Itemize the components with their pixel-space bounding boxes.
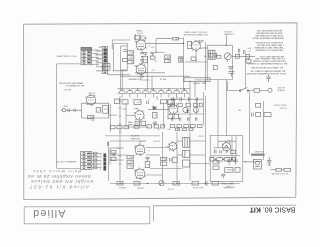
svg-text:470K: 470K bbox=[151, 45, 155, 47]
vertical feed wire bbox=[120, 46, 122, 90]
junction dots bias chain bbox=[119, 183, 206, 184]
vertical wire at 183.4 bbox=[182, 37, 184, 90]
long wire x218 bbox=[217, 80, 219, 136]
cap Cd bbox=[196, 97, 197, 101]
plate resistor box R8 bbox=[134, 100, 141, 105]
tone pot 1 bbox=[183, 107, 188, 112]
wire jack loop to bus bbox=[109, 114, 117, 116]
grid resistor R19 bbox=[127, 56, 133, 60]
PS junction dots bbox=[215, 159, 233, 160]
svg-text:ALL RESISTORS ARE 1/2 WATT 10%: ALL RESISTORS ARE 1/2 WATT 10% bbox=[250, 70, 285, 73]
wire V5 plate row bbox=[146, 43, 209, 52]
loop inner component b bbox=[123, 58, 128, 61]
screen resistor R21 bbox=[127, 51, 133, 55]
pilot and dial lamps label bbox=[56, 55, 77, 58]
coupling cluster label bbox=[154, 60, 157, 62]
speaker terminal block bbox=[81, 152, 92, 170]
left wires cluster bbox=[110, 147, 124, 149]
bias resistor Rb4 bbox=[192, 182, 198, 185]
svg-text:SPEAKER OUTPUTS: SPEAKER OUTPUTS bbox=[56, 160, 76, 163]
input connector strip (left-center) bbox=[102, 46, 107, 73]
left cluster box 2 bbox=[111, 157, 116, 160]
border frame of schematic sheet bbox=[24, 23, 297, 200]
potentiometer P1 bbox=[224, 53, 231, 60]
svg-text:.01: .01 bbox=[176, 102, 178, 104]
vertical wire x162.5 bbox=[162, 132, 164, 181]
label: output transformer bbox=[183, 31, 208, 35]
svg-text:AUX IN: AUX IN bbox=[96, 65, 103, 68]
svg-text:PIN 4-5: PIN 4-5 bbox=[160, 78, 166, 80]
phase inv tube V8 bbox=[169, 143, 177, 151]
resistor R36 bbox=[164, 59, 170, 62]
grid resistor R2 bbox=[87, 115, 93, 118]
junction component bbox=[235, 54, 239, 58]
cap C6 bbox=[153, 122, 157, 126]
svg-text:7591: 7591 bbox=[134, 168, 138, 170]
svg-text:V4B PHASE: V4B PHASE bbox=[130, 137, 140, 140]
svg-text:NOTE 2: NOTE 2 bbox=[63, 88, 71, 90]
small rect R31 bbox=[173, 37, 179, 40]
wire below strip bbox=[108, 62, 130, 75]
switch wire bbox=[249, 90, 254, 92]
tube stubs V6 bbox=[134, 144, 145, 157]
input jack J1 bbox=[61, 109, 74, 112]
tube V2b circle bbox=[169, 105, 178, 114]
AC box row2 bbox=[264, 113, 271, 117]
resistor R63 bbox=[127, 165, 133, 169]
heater bus top rail bbox=[118, 88, 190, 90]
value label sprinkle 7 bbox=[122, 107, 126, 109]
wire to fuse bbox=[260, 90, 268, 92]
svg-text:AC LINE: AC LINE bbox=[277, 86, 284, 89]
svg-text:ALL VOLTAGES DC: ALL VOLTAGES DC bbox=[65, 84, 84, 87]
svg-text:.05: .05 bbox=[160, 102, 162, 104]
tube stubs V1 bbox=[86, 94, 97, 107]
resistor R15 bbox=[174, 115, 179, 119]
svg-text:FOR 7591 OUTPUT TUBES: FOR 7591 OUTPUT TUBES bbox=[184, 31, 207, 33]
wires from power box top going up bbox=[222, 182, 232, 184]
svg-text:Allied: Allied bbox=[32, 207, 66, 219]
svg-text:.022: .022 bbox=[151, 68, 154, 70]
svg-text:GND: GND bbox=[98, 45, 103, 47]
tube V4 internals bbox=[138, 68, 144, 74]
PS bottom caps bbox=[221, 174, 225, 178]
vertical wire x190 lower bbox=[189, 132, 191, 181]
long wire x190 bbox=[189, 80, 191, 128]
cap Ca bbox=[172, 97, 173, 101]
small box under V5 bbox=[191, 57, 196, 60]
wire to R31 bbox=[156, 39, 183, 53]
PS wire 2 bbox=[235, 141, 237, 157]
svg-text:TUNER: TUNER bbox=[95, 69, 102, 71]
bias resistor R17 bbox=[127, 60, 133, 64]
tube V1 label bbox=[88, 92, 95, 94]
resistor R14 bbox=[168, 115, 173, 119]
svg-text:WITH SELECTOR IN PHONO: WITH SELECTOR IN PHONO bbox=[255, 41, 283, 43]
tube V5 circle bbox=[192, 41, 201, 50]
volume/loudness label bbox=[223, 30, 234, 34]
vertical bus left of center bbox=[119, 96, 121, 181]
voltage note (left) bbox=[59, 81, 84, 87]
PS resistor upper right bbox=[231, 150, 236, 153]
cap C16 bbox=[243, 50, 245, 54]
lower boxes row bbox=[170, 125, 202, 128]
tube stubs V4 bbox=[135, 63, 146, 76]
tube V5 internals bbox=[193, 45, 198, 49]
loop inner component a bbox=[123, 50, 127, 52]
cap C42 bbox=[170, 158, 172, 162]
junction dots col bbox=[141, 56, 142, 64]
bass/treble label bbox=[127, 121, 132, 127]
tube V4 label bbox=[135, 64, 139, 66]
bias resistor Rb1 bbox=[117, 182, 123, 186]
svg-text:.047: .047 bbox=[154, 60, 157, 62]
cap C40 bbox=[113, 152, 115, 156]
svg-text:IN: IN bbox=[117, 146, 119, 148]
heater pin labels bbox=[123, 97, 184, 99]
rectifier tube V9 bbox=[223, 143, 231, 151]
wire strip top to T1 bbox=[112, 39, 130, 41]
input area bus wire bbox=[109, 104, 111, 132]
resistor R13 (center col) bbox=[160, 100, 166, 103]
wire from pot to right bbox=[232, 55, 255, 57]
tube V1 circle bbox=[86, 95, 96, 105]
value label sprinkle 4 bbox=[157, 127, 179, 129]
arrow mark bbox=[199, 40, 203, 44]
resistor R66 bbox=[161, 162, 167, 165]
PS mid row box b bbox=[217, 158, 223, 161]
cap C15 bbox=[228, 72, 234, 77]
feedback resistor R35 bbox=[164, 55, 170, 58]
wire: left bus to speaker block bbox=[57, 167, 81, 169]
T1 terminal box bbox=[135, 36, 140, 39]
PS inner horizontal wire bbox=[211, 154, 240, 156]
svg-text:40: 40 bbox=[233, 155, 235, 157]
tone control label box bbox=[184, 78, 210, 82]
svg-text:MAG PH: MAG PH bbox=[94, 53, 102, 56]
tube V6 right pins labels bbox=[148, 146, 149, 151]
strip lower component box bbox=[103, 64, 110, 71]
wire into V8 bbox=[167, 145, 169, 147]
svg-text:PHONO: PHONO bbox=[95, 61, 102, 63]
tube stubs V3 bbox=[135, 39, 146, 52]
heater bus labels bbox=[128, 78, 141, 81]
selector row below bbox=[175, 128, 193, 131]
long wire x226 bbox=[225, 80, 227, 136]
title block: right strip line bbox=[154, 205, 297, 221]
svg-text:8: 8 bbox=[100, 164, 101, 166]
line cap C30 bbox=[266, 75, 270, 82]
coupling cap C41 bbox=[145, 157, 149, 161]
svg-text:INPUT: INPUT bbox=[63, 105, 68, 107]
label bottom right of T3 bbox=[198, 135, 204, 137]
svg-text:TRANS: TRANS bbox=[136, 29, 143, 32]
tube stubs V9 bbox=[222, 141, 232, 152]
value label sprinkle 3 bbox=[153, 102, 178, 104]
svg-text:40: 40 bbox=[226, 155, 228, 157]
svg-text:500K: 500K bbox=[213, 53, 217, 55]
svg-text:50-60 CYCLES: 50-60 CYCLES bbox=[273, 104, 286, 106]
heater bus bottom rail bbox=[118, 92, 190, 94]
wire V4 to bus bbox=[141, 74, 150, 80]
svg-text:XTAL: XTAL bbox=[98, 49, 102, 52]
AC corner wire bbox=[228, 82, 239, 91]
wire second stage loop bbox=[126, 103, 148, 127]
fuse chain right bbox=[270, 168, 290, 171]
bias label 3 bbox=[224, 186, 233, 189]
resistor row b1 bbox=[171, 103, 175, 107]
tube V1 internals bbox=[88, 98, 94, 105]
svg-text:6EU7: 6EU7 bbox=[134, 107, 139, 109]
resistor row b4 bbox=[194, 103, 198, 107]
fuse label bbox=[277, 86, 285, 91]
wires across center bbox=[148, 108, 169, 110]
AC vertical wire 2 bbox=[263, 101, 265, 160]
tube V6 internals bbox=[137, 149, 143, 155]
tube V2 circle bbox=[135, 111, 144, 120]
bias label 4.7K bbox=[167, 187, 174, 189]
long wire x245.5 bbox=[245, 58, 247, 88]
tube V3 internals bbox=[138, 44, 144, 50]
long wire across tone rows bbox=[178, 113, 204, 115]
T3 lower boxes bbox=[183, 150, 190, 157]
lower caps row bbox=[172, 117, 197, 120]
wire to loudness bbox=[225, 35, 227, 44]
svg-text:PIN 3-5: PIN 3-5 bbox=[139, 75, 144, 77]
wire PS to right bbox=[243, 161, 262, 163]
junction dots on speaker bus bbox=[104, 156, 106, 169]
svg-text:7591: 7591 bbox=[135, 40, 139, 42]
selector components cluster bbox=[168, 100, 175, 105]
svg-text:BASIC 60. KIT: BASIC 60. KIT bbox=[249, 205, 296, 212]
tone feed wire bbox=[194, 82, 196, 97]
tube V7 (output, lower) bbox=[135, 169, 145, 179]
svg-text:MEASURED WITH VTVM: MEASURED WITH VTVM bbox=[59, 81, 83, 84]
resistor R40 bbox=[209, 53, 217, 57]
bias resistor Rb2 bbox=[134, 182, 140, 186]
svg-text:500K: 500K bbox=[167, 127, 171, 129]
long wire x152 bbox=[151, 76, 153, 90]
svg-text:CONTROL: CONTROL bbox=[224, 30, 233, 32]
tube V2 label bbox=[134, 107, 139, 109]
AC box row bbox=[256, 113, 261, 117]
wire loop right of input strip bbox=[113, 43, 127, 70]
cathode resistor R9 bbox=[135, 121, 140, 125]
PS resistor Rp2 bbox=[213, 166, 219, 169]
svg-text:ALL CAPACITOR VALUES IN MFD: ALL CAPACITOR VALUES IN MFD bbox=[250, 66, 283, 69]
cap C5 bbox=[147, 101, 149, 104]
value label sprinkle 8 bbox=[238, 108, 241, 110]
resistor R38 bbox=[179, 57, 183, 62]
small box left under bus bbox=[115, 99, 120, 104]
tube stubs V8 bbox=[168, 141, 177, 152]
handwritten pencil notes (bottom left, rotated) bbox=[28, 169, 93, 189]
PS small rect bbox=[235, 168, 240, 173]
svg-text:PILOT & DIAL LAMPS: PILOT & DIAL LAMPS bbox=[56, 55, 77, 58]
wire left vertical bbox=[109, 148, 111, 165]
transition extra box bbox=[134, 125, 139, 128]
svg-text:TONE CONTROL: TONE CONTROL bbox=[194, 78, 208, 80]
interlock box bbox=[254, 89, 260, 92]
tube V7 label bbox=[134, 168, 138, 170]
PS caps C51 bbox=[233, 157, 238, 165]
svg-text:.047 600V: .047 600V bbox=[153, 139, 160, 141]
value label sprinkle 2 bbox=[151, 68, 154, 70]
cap stack C12 bbox=[179, 57, 183, 61]
value label sprinkle 5 bbox=[214, 148, 217, 150]
svg-text:V1 6EU7: V1 6EU7 bbox=[88, 92, 95, 94]
pot arrow bbox=[225, 54, 230, 62]
svg-text:8: 8 bbox=[149, 44, 150, 46]
power switch S2 bbox=[239, 88, 249, 92]
tube V2 internals bbox=[137, 114, 143, 119]
svg-text:6.8K: 6.8K bbox=[167, 55, 170, 57]
lamp wires to right with labels bbox=[92, 50, 99, 64]
svg-text:12K: 12K bbox=[167, 59, 170, 61]
svg-text:SR1: SR1 bbox=[238, 108, 241, 110]
coupling cap C7 bbox=[143, 53, 147, 56]
svg-text:T2 OUT: T2 OUT bbox=[198, 135, 204, 137]
grid resistor R2 label bbox=[91, 119, 95, 121]
resistor R42 bbox=[213, 65, 217, 69]
resistor R61 bbox=[127, 155, 133, 158]
arrow near V3 bbox=[143, 37, 147, 40]
resistor row b5 bbox=[199, 103, 202, 107]
bias resistor Rb3 bbox=[173, 182, 179, 186]
note mark arrow bbox=[63, 88, 71, 90]
label below V4 bbox=[139, 75, 144, 77]
T1 leads bbox=[136, 34, 141, 40]
AC outlet cluster bbox=[253, 159, 261, 169]
tube V5 label bbox=[196, 39, 203, 41]
speaker output label bbox=[56, 160, 76, 163]
output transformer T3 box bbox=[183, 137, 190, 147]
tone pot 2 bbox=[193, 107, 198, 112]
resistor R23 bbox=[143, 57, 148, 63]
small rect R44 bbox=[246, 54, 250, 58]
resistor R65 bbox=[161, 157, 167, 161]
tube stubs V7 bbox=[134, 167, 145, 180]
rectifier label bbox=[227, 139, 231, 141]
output transformer T2 box bbox=[209, 50, 216, 59]
svg-text:TAPE H: TAPE H bbox=[95, 57, 102, 60]
svg-text:16: 16 bbox=[99, 167, 101, 169]
transition band boxes row bbox=[111, 125, 165, 129]
tube V3 (output, upper) bbox=[136, 40, 146, 50]
bias pot circle bbox=[159, 181, 164, 186]
cap Cb bbox=[180, 97, 181, 101]
cap C14 bbox=[228, 66, 233, 70]
phase inverter label bbox=[130, 134, 140, 140]
notes text block (top right) bbox=[246, 29, 287, 74]
svg-text:20: 20 bbox=[219, 155, 221, 157]
bias label hum bbox=[137, 187, 144, 190]
PS caps C50 bbox=[227, 157, 232, 165]
dial lamp terminal block bbox=[81, 47, 92, 64]
svg-text:117V AC: 117V AC bbox=[279, 106, 287, 109]
svg-text:4.7K 5W: 4.7K 5W bbox=[167, 187, 174, 189]
resistor R12 bbox=[153, 112, 157, 118]
resistor row b2 bbox=[178, 103, 182, 107]
PS wires inside bbox=[213, 147, 229, 149]
resistor row b3 bbox=[186, 103, 190, 107]
wire to tube V2 bbox=[126, 114, 135, 116]
tube V6 (output, upper) bbox=[135, 145, 145, 155]
bias label 1 bbox=[119, 186, 126, 189]
right top wire bbox=[239, 52, 248, 60]
AC small box bbox=[256, 103, 261, 107]
heater drop wires bbox=[122, 93, 184, 97]
connector strip labels bbox=[94, 45, 102, 71]
resistor R64 bbox=[145, 161, 150, 167]
svg-text:Built March 1961: Built March 1961 bbox=[33, 169, 81, 174]
value label sprinkle 1 bbox=[151, 45, 155, 47]
svg-text:Knight KN-660 Deluxe: Knight KN-660 Deluxe bbox=[31, 179, 93, 184]
wire left 2 bbox=[110, 159, 124, 161]
svg-text:4.7K: 4.7K bbox=[137, 182, 140, 184]
svg-text:INVERTER: INVERTER bbox=[130, 134, 139, 136]
tube stubs V5 bbox=[191, 40, 201, 52]
small box under bus 2 bbox=[122, 100, 128, 104]
cathode resistor R3 bbox=[96, 108, 101, 112]
heater bus ticks bbox=[122, 89, 184, 91]
resistor R41 bbox=[216, 55, 221, 58]
vertical wire at 205.3 bbox=[204, 42, 206, 90]
fuse chain label bbox=[272, 172, 288, 175]
tube V2b internals bbox=[171, 109, 176, 114]
PS label below bbox=[221, 182, 235, 187]
speaker row dark marks bbox=[87, 153, 91, 169]
caps right top labels bbox=[246, 47, 251, 52]
transformer T1 label bbox=[136, 29, 143, 34]
svg-text:450V: 450V bbox=[211, 155, 215, 157]
svg-text:7591: 7591 bbox=[134, 144, 138, 146]
wire driver column bbox=[121, 45, 128, 47]
dark terminal bus bar (speaker strip) bbox=[103, 153, 106, 170]
PS mid row box d bbox=[233, 158, 236, 161]
svg-text:47K: 47K bbox=[189, 43, 192, 45]
tube V7 internals bbox=[137, 173, 143, 179]
bias component右 bbox=[212, 182, 218, 185]
bias cap Cb1 bbox=[205, 181, 207, 186]
tone row enclosure verticals bbox=[168, 99, 196, 114]
bias wire bbox=[110, 182, 240, 184]
svg-text:CHOKE: CHOKE bbox=[227, 168, 232, 170]
PS resistor Rp1 bbox=[213, 161, 219, 165]
svg-text:6.3V HEATERS: 6.3V HEATERS bbox=[128, 78, 141, 81]
V5 lower wires bbox=[185, 50, 207, 62]
coupling caps row (upper) wire bbox=[170, 98, 203, 100]
transition small parts left bbox=[107, 142, 108, 146]
coupling capacitor C1 bbox=[74, 109, 82, 112]
bottom channel horizontal wires mesh bbox=[110, 141, 210, 175]
wire T1 down bbox=[111, 40, 113, 49]
PS caps row upper bbox=[215, 150, 222, 153]
bias pot arrow bbox=[160, 182, 163, 185]
PS inner vertical wires bbox=[218, 136, 236, 158]
thermistor bar bbox=[251, 150, 265, 156]
tube V3 right labels bbox=[149, 42, 150, 47]
dark terminal bus bar (input strip) bbox=[104, 49, 107, 63]
svg-text:5U4: 5U4 bbox=[214, 148, 217, 150]
svg-text:1.5K: 1.5K bbox=[175, 37, 178, 39]
svg-text:.1: .1 bbox=[153, 102, 154, 104]
AC line label bbox=[273, 104, 286, 110]
tone vertical wire bbox=[203, 92, 205, 125]
wire V3 plate to T1 bbox=[141, 36, 145, 40]
junction cluster bbox=[187, 109, 189, 113]
svg-text:GZ34: GZ34 bbox=[227, 139, 231, 141]
